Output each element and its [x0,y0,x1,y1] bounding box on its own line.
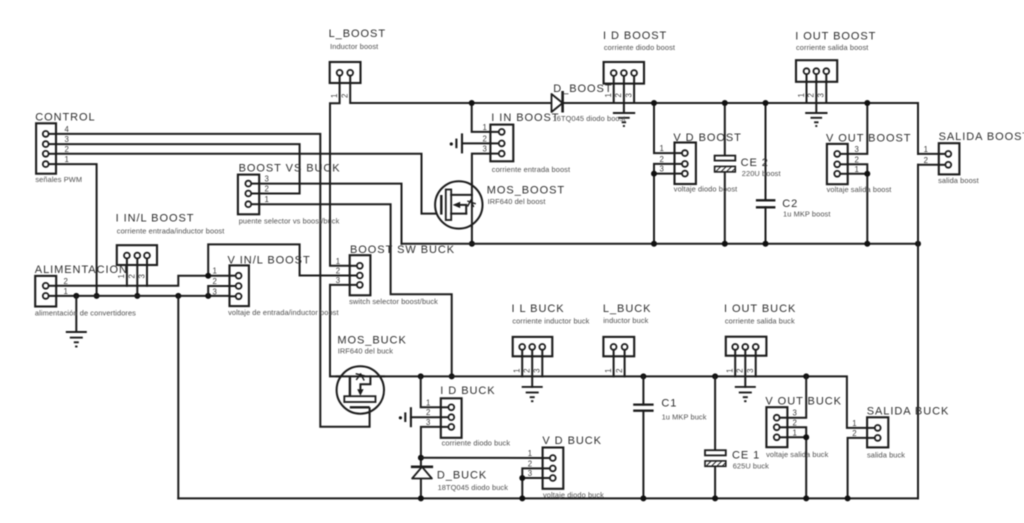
svg-text:puente selector vs boost/buck: puente selector vs boost/buck [239,217,340,226]
wire: buck bus across MOS_BUCK circle [337,375,384,377]
connector I IN BOOST [483,123,514,161]
svg-text:1u MKP boost: 1u MKP boost [783,210,831,219]
capacitor C2 (1u MKP) [756,200,776,207]
label D_BOOST [553,83,626,123]
connector I OUT BUCK [726,337,767,387]
svg-text:corriente salida boost: corriente salida boost [796,43,868,52]
svg-text:SALIDA BOOST: SALIDA BOOST [939,131,1024,143]
svg-text:BOOST SW BUCK: BOOST SW BUCK [350,244,455,256]
svg-text:3: 3 [528,469,532,478]
svg-text:ALIMENTACION: ALIMENTACION [35,264,128,276]
label C1 value [661,398,706,422]
wire: CONTROL pin3 down to BOOST VS BUCK pin2 [56,144,300,193]
label BOOST SW BUCK [349,244,455,306]
connector V D BUCK [528,448,564,489]
svg-text:1: 1 [726,369,735,373]
wire: L_BOOST pin1 down to BOOST SW BUCK pin1 [330,83,350,266]
svg-text:voltaje salida buck: voltaje salida buck [766,450,828,459]
wire: CE 2 connection top and bottom [722,100,728,247]
wire: right side vertical (SALIDA BOOST pin2 to bottom bus) [917,165,919,499]
wire: CONTROL pin2 to MOS_BOOST gate [56,154,437,214]
label L_BOOST [329,28,386,51]
wire: VIN+ rail (ALIMENTACION pin2 / I IN/L BOOST pins / V IN/L pin1 / BOOST SW BUCK pin2) [56,244,350,285]
connector ALIMENTACION [35,276,68,307]
svg-text:2: 2 [855,155,859,164]
wire: C1 connections [640,376,646,501]
svg-text:3: 3 [660,165,664,174]
svg-text:voltaje diodo boost: voltaje diodo boost [674,185,738,194]
svg-text:2: 2 [852,429,856,438]
label L_BUCK [603,303,652,325]
svg-text:1: 1 [483,123,487,132]
label I IN BOOST [491,112,570,174]
wire: top boost bus (L_BOOST pin2 to right corner, node SW->out) [350,83,918,154]
svg-text:señales PWM: señales PWM [35,175,82,184]
svg-text:CE 1: CE 1 [732,450,760,462]
svg-text:switch selector boost/buck: switch selector boost/buck [349,297,438,306]
svg-text:MOS_BOOST: MOS_BOOST [487,184,565,196]
capacitor CE 2 (polarized 220U) [715,156,736,172]
svg-text:CE 2: CE 2 [741,157,769,169]
svg-text:1: 1 [65,155,69,164]
svg-text:1: 1 [426,398,430,407]
svg-text:corriente diodo boost: corriente diodo boost [604,43,675,52]
connector SALIDA BOOST [924,143,960,174]
svg-text:1: 1 [855,165,859,174]
svg-text:I IN BOOST: I IN BOOST [491,112,559,124]
svg-text:3: 3 [213,287,217,296]
svg-text:MOS_BUCK: MOS_BUCK [337,335,406,347]
svg-text:BOOST VS BUCK: BOOST VS BUCK [239,163,341,175]
svg-text:D_BUCK: D_BUCK [437,470,487,482]
svg-text:2: 2 [614,93,623,97]
wire: I IN BOOST pin1 tap from top bus [469,100,491,132]
svg-text:2: 2 [793,418,797,427]
svg-text:2: 2 [265,185,269,194]
svg-text:V OUT BUCK: V OUT BUCK [765,395,842,407]
label CE 1 value [732,450,769,471]
svg-text:2: 2 [736,369,745,373]
svg-text:salida boost: salida boost [938,176,979,185]
svg-text:2: 2 [615,369,624,373]
svg-text:I D BOOST: I D BOOST [603,30,667,42]
wire: V OUT BOOST pins 2-1 down to lower boost bus [848,164,871,246]
svg-text:1: 1 [924,145,928,154]
svg-text:3: 3 [793,409,797,418]
svg-text:Inductor boost: Inductor boost [330,42,378,51]
svg-text:3: 3 [746,369,755,373]
connector V OUT BUCK [766,407,796,447]
svg-text:2: 2 [341,94,350,98]
connector SALIDA BUCK [852,417,888,447]
svg-text:3: 3 [624,93,633,97]
wire: SALIDA BOOST pin1 from top bus corner [918,153,939,155]
connector I IN/L BOOST [117,245,157,278]
diode D_BOOST (16TQ045) [552,91,563,113]
wire: I IN/L BOOST pin3 down [146,265,148,286]
svg-text:2: 2 [128,274,137,278]
svg-text:corriente diodo buck: corriente diodo buck [442,439,511,448]
capacitor CE 1 (polarized 625U) [705,450,726,466]
label V D BOOST [673,132,741,193]
svg-text:I D BUCK: I D BUCK [440,385,495,397]
svg-text:2: 2 [336,267,340,276]
svg-text:3: 3 [137,274,146,278]
wire: V D BOOST pins 2-3 down to lower boost bus [651,164,675,247]
wire: BOOST VS BUCK pin1 down to buck switch-node bus [259,204,455,379]
wire: V D BUCK pins 2-3 down to bottom bus [519,468,542,501]
label ALIMENTACION [35,264,136,318]
svg-text:2: 2 [924,156,928,165]
svg-text:CONTROL: CONTROL [35,112,95,124]
label I OUT BOOST [795,30,876,52]
diode D_BUCK (18TQ045) [411,467,433,479]
wire: BOOST SW BUCK pin3 stub [330,284,350,286]
svg-text:3: 3 [265,175,269,184]
wire: I IN/L BOOST pin1 down [126,265,128,286]
wire: buck switch-node bus (MOS_BUCK drain rail) [330,285,867,428]
svg-text:C2: C2 [782,198,798,210]
svg-text:2: 2 [528,459,532,468]
connector L_BUCK [603,337,634,377]
svg-text:D_BOOST: D_BOOST [553,83,612,95]
connector BOOST SW BUCK [336,255,371,295]
svg-text:3: 3 [855,145,859,154]
ground below I OUT BUCK [735,387,756,401]
svg-text:2: 2 [660,155,664,164]
wire: CE 1 connections [712,376,718,501]
connector CONTROL [36,123,69,173]
svg-text:2: 2 [213,277,217,286]
svg-text:2: 2 [65,145,69,154]
svg-text:corriente salida buck: corriente salida buck [725,316,795,325]
svg-text:3: 3 [817,93,826,97]
connector L_BOOST [330,62,361,98]
wire: V IN/L BOOST pin2 tie to ground bus [208,286,229,296]
wire: ground bus (ALIMENTACION pin1 to V IN/L BOOST pin3) [56,293,229,299]
wire: I D BUCK pin1 tap [421,376,441,407]
svg-text:625U buck: 625U buck [733,462,769,471]
wire: bottom bus [178,497,918,499]
svg-text:2: 2 [426,408,430,417]
transistor MOS_BUCK (IRF640, rotated) [337,366,384,415]
label V OUT BOOST [826,132,911,194]
wire: V OUT BUCK pin3 up to buck bus [787,376,806,417]
wire: lower boost bus [402,241,922,247]
svg-text:2: 2 [807,93,816,97]
wire: C2 connection top and bottom [763,100,769,247]
ground below I L BUCK [522,387,543,401]
wire: V OUT BUCK pins 2-1 down to bottom bus [787,427,809,501]
svg-text:voltaje de entrada/inductor bo: voltaje de entrada/inductor boost [228,308,339,317]
svg-text:1: 1 [64,287,68,296]
label I IN/L BOOST [116,213,225,236]
svg-text:C1: C1 [661,398,677,410]
svg-text:I OUT BOOST: I OUT BOOST [795,30,876,42]
label SALIDA BOOST [938,131,1024,185]
connector BOOST VS BUCK [238,175,269,215]
wire: V D BOOST tap from top bus to pin1 [651,100,675,153]
label BOOST VS BUCK [239,163,341,226]
svg-text:4: 4 [65,125,70,134]
svg-text:V D BUCK: V D BUCK [542,435,602,447]
ground below I D BOOST [613,113,635,126]
svg-text:3: 3 [336,276,340,285]
svg-text:1: 1 [336,257,340,266]
probe symbol at I D BUCK pin2 [399,407,441,427]
wire: big ground loop down left [177,296,179,499]
svg-text:1: 1 [528,449,532,458]
wire: CONTROL pin4 to MOS_BUCK gate net (down left side) [56,134,370,427]
wire: I IN BOOST pin3 down through MOS_BOOST drain-source to lower bus [469,154,491,247]
svg-text:IRF640 del boost: IRF640 del boost [488,197,546,206]
wire: CONTROL pin1 down to ground bus [56,164,100,299]
transistor MOS_BOOST (IRF640) [435,181,482,228]
wire: SALIDA BOOST pin2 to right vertical [918,164,939,166]
label V IN/L BOOST [228,255,339,317]
svg-text:1: 1 [265,195,269,204]
svg-text:3: 3 [426,418,430,427]
svg-text:1u MKP buck: 1u MKP buck [662,413,707,422]
connector I D BOOST [604,62,644,113]
svg-text:voltaje diodo buck: voltaje diodo buck [543,491,604,500]
connector V OUT BOOST [827,144,859,184]
svg-text:inductor buck: inductor buck [603,316,648,325]
svg-text:V IN/L BOOST: V IN/L BOOST [228,255,311,267]
label V D BUCK [542,435,604,500]
svg-text:SALIDA BUCK: SALIDA BUCK [867,405,950,417]
ground below ALIMENTACION [66,296,87,347]
label I D BOOST [603,30,675,52]
label I L BUCK [512,303,590,325]
label CE 2 value [741,157,781,178]
svg-text:1: 1 [797,93,806,97]
svg-text:3: 3 [483,145,487,154]
wire: I D BUCK pin3 down through D_BUCK to bottom bus [418,427,441,502]
svg-text:salida buck: salida buck [867,450,905,459]
svg-text:IRF640 del buck: IRF640 del buck [338,347,394,356]
svg-text:I OUT BUCK: I OUT BUCK [724,303,796,315]
svg-text:3: 3 [533,369,542,373]
connector V D BOOST [660,143,696,185]
svg-text:1: 1 [330,94,339,98]
svg-text:1: 1 [513,369,522,373]
svg-text:L_BOOST: L_BOOST [329,28,386,40]
svg-text:18TQ045 diodo buck: 18TQ045 diodo buck [438,483,509,492]
svg-text:corriente inductor buck: corriente inductor buck [512,316,589,325]
svg-text:2: 2 [523,369,532,373]
svg-text:alimentación de convertidores: alimentación de convertidores [35,308,136,317]
wire: V OUT BOOST tap from top bus to pin3 [848,100,871,154]
svg-text:1: 1 [213,267,217,276]
svg-text:220U boost: 220U boost [742,169,781,178]
wire: SALIDA BUCK pin2 down to bottom bus [845,438,868,502]
label I OUT BUCK [724,303,796,325]
svg-text:I L BUCK: I L BUCK [512,303,565,315]
svg-text:V D BOOST: V D BOOST [673,132,741,144]
svg-text:2: 2 [483,134,487,143]
connector V IN/L BOOST [213,265,249,306]
svg-text:2: 2 [64,277,68,286]
wire: diode node to V D BUCK pin1 [421,457,543,459]
svg-text:1: 1 [852,419,856,428]
svg-text:16TQ045 diodo boost: 16TQ045 diodo boost [553,114,626,123]
label V OUT BUCK [765,395,842,459]
svg-text:L_BUCK: L_BUCK [603,303,652,315]
probe symbol at I IN BOOST pin2 [450,133,491,153]
svg-text:corriente entrada boost: corriente entrada boost [492,165,570,174]
label I D BUCK [440,385,510,447]
wire: I IN/L BOOST pin2 down to ground bus [134,265,140,299]
svg-text:1: 1 [793,428,797,437]
label MOS_BUCK [337,335,406,356]
capacitor C1 (1u MKP) [633,405,653,411]
svg-text:I IN/L BOOST: I IN/L BOOST [116,213,195,225]
label CONTROL [35,112,95,185]
ground below I OUT BOOST [805,113,827,126]
label MOS_BOOST [487,184,565,206]
svg-text:1: 1 [660,144,664,153]
label D_BUCK [437,470,508,492]
label C2 value [782,198,830,219]
connector I D BUCK [426,398,462,438]
wire: BOOST VS BUCK pin3 down to lower boost bus [259,184,401,244]
svg-text:1: 1 [604,369,613,373]
svg-text:3: 3 [65,135,69,144]
svg-text:corriente entrada/inductor boo: corriente entrada/inductor boost [117,226,225,235]
svg-text:voltaje salida boost: voltaje salida boost [827,185,892,194]
connector I L BUCK [513,337,553,387]
svg-text:V OUT BOOST: V OUT BOOST [826,132,911,144]
connector I OUT BOOST [796,60,837,113]
label SALIDA BUCK [867,405,950,459]
